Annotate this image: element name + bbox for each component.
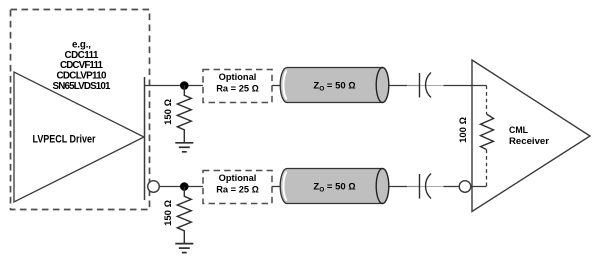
wire cap to receiver (top) [444,85,473,87]
driver output rail [144,77,146,200]
wire box to tline (top) [272,85,281,87]
transmission line Z0=50 (top) [280,68,389,103]
op-amp U1 LVPECL driver triangle [14,72,144,202]
svg-text:Ra = 25 Ω: Ra = 25 Ω [216,84,259,94]
resistor R3 100 ohm [481,114,494,150]
node receiver input (open circle, bottom) [459,181,471,193]
resistor R1 150 ohm (top) [177,86,191,143]
svg-text:CDCLVP110: CDCLVP110 [57,70,108,81]
internal termination dashed connection [486,86,488,115]
svg-text:Optional: Optional [219,173,257,183]
svg-text:CML: CML [509,125,528,136]
capacitor C1 (top) [419,73,421,98]
svg-text:Optional: Optional [219,72,257,82]
svg-text:100 Ω: 100 Ω [458,117,469,143]
optional Ra box (bottom) [203,171,272,204]
node junction bottom (filled) [180,182,189,191]
wire tline to cap (top) [390,85,408,87]
ground (bottom) [175,244,193,253]
wire into receiver bottom [471,186,487,188]
optional Ra box (top) [203,70,272,103]
wire bottom output [160,186,203,188]
svg-text:150 Ω: 150 Ω [163,200,174,226]
wire into receiver top [470,85,487,87]
wire cap to receiver (bottom, before circle) [444,186,460,188]
node junction top (filled) [180,81,189,90]
svg-text:SN65LVDS101: SN65LVDS101 [53,81,112,92]
driver dashed box [11,10,150,210]
wire box to tline (bottom) [272,186,281,188]
ground (top) [175,143,193,152]
wire tline to cap (bottom) [390,186,408,188]
svg-text:150 Ω: 150 Ω [163,99,174,125]
op-amp U2 CML receiver triangle [472,60,590,212]
svg-text:LVPECL Driver: LVPECL Driver [33,134,96,146]
transmission line Z0=50 (bottom) [280,169,389,204]
label e.g. device list [53,40,112,92]
resistor R2 150 ohm (bottom) [177,187,191,244]
capacitor C2 (bottom) [419,174,421,199]
svg-text:Ra = 25 Ω: Ra = 25 Ω [216,185,259,195]
svg-text:Receiver: Receiver [509,136,549,147]
node bottom output (open circle, inverted) [148,181,160,193]
wire top output [145,85,204,87]
